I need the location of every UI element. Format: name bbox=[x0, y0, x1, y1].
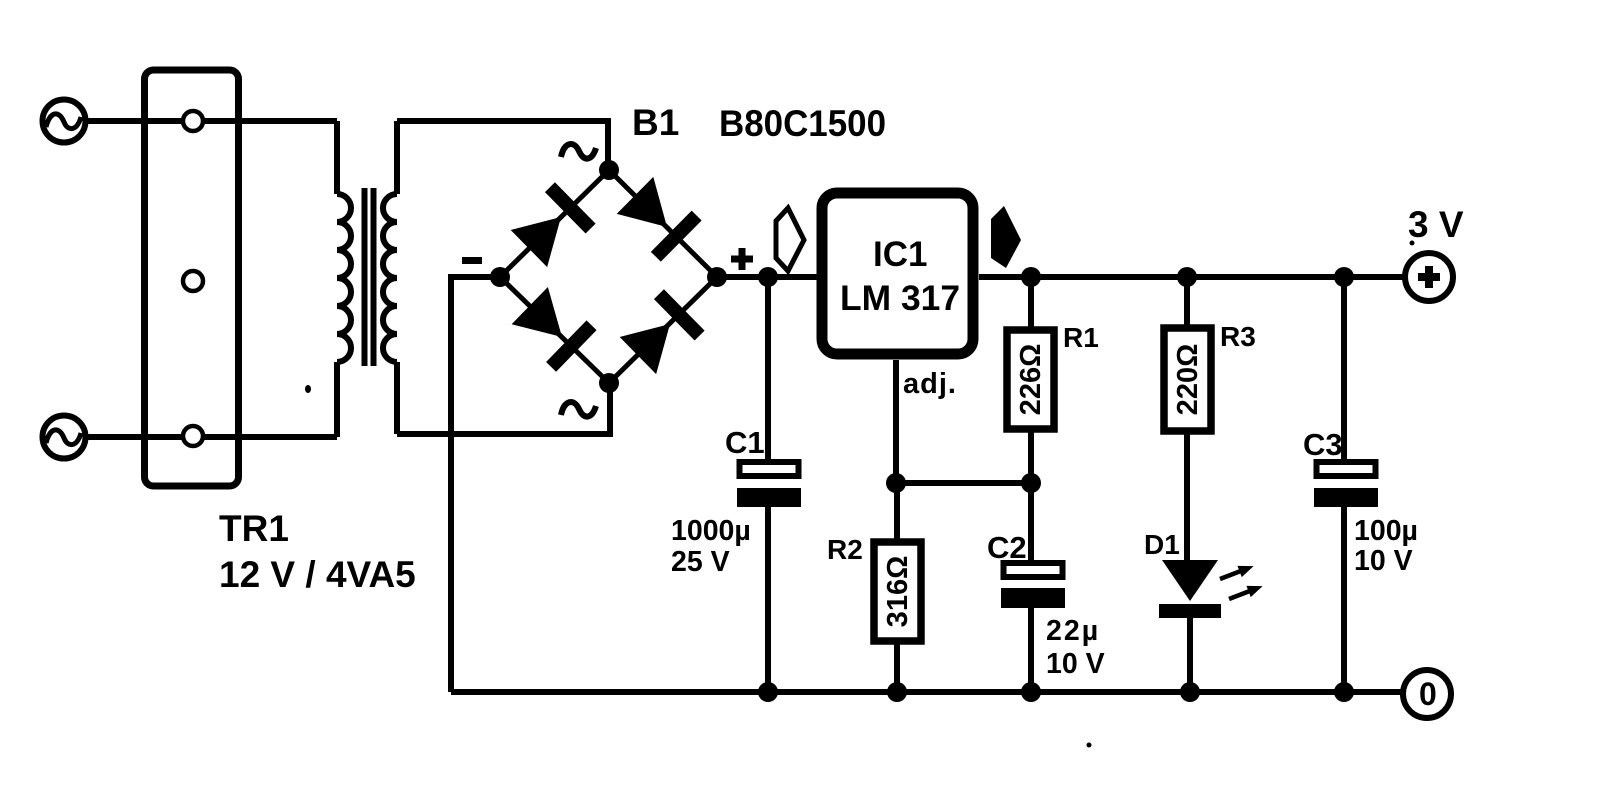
svg-text:C1: C1 bbox=[725, 425, 765, 460]
LED D1 bbox=[1159, 560, 1221, 692]
plug pin bottom bbox=[183, 426, 203, 446]
node output rail R1 junction bbox=[1021, 267, 1041, 287]
output block arrow bbox=[991, 206, 1021, 268]
svg-text:D1: D1 bbox=[1144, 529, 1180, 560]
plug pin top bbox=[183, 111, 203, 131]
output terminal zero bbox=[1403, 670, 1451, 718]
wire bottom AC to transformer primary bbox=[88, 434, 337, 440]
svg-text:B80C1500: B80C1500 bbox=[719, 103, 886, 144]
node D1 ground junction bbox=[1180, 682, 1200, 702]
node output rail C3 junction bbox=[1334, 267, 1354, 287]
wire IC1 adj pin bbox=[893, 360, 899, 483]
node bridge right bbox=[707, 267, 727, 287]
LED light arrow 2 bbox=[1227, 580, 1265, 604]
svg-text:LM 317: LM 317 bbox=[840, 279, 960, 318]
diode D lower-left (anode left node, cathode bottom node) bbox=[510, 285, 597, 372]
svg-text:1000µ: 1000µ bbox=[671, 515, 751, 547]
capacitor C2 bbox=[1001, 483, 1065, 692]
node C3 ground junction bbox=[1334, 682, 1354, 702]
svg-text:R3: R3 bbox=[1220, 321, 1256, 352]
diode D lower-right (anode bottom node, cathode right node) bbox=[618, 289, 705, 376]
wire adj to R1/C2 branch bbox=[896, 480, 1031, 486]
wire R1 top bbox=[1028, 277, 1034, 330]
node bridge left bbox=[490, 267, 510, 287]
resistor R2 316 ohm bbox=[874, 542, 921, 641]
diode D upper-left (anode left node, cathode top node) bbox=[509, 182, 596, 269]
wire R3 top bbox=[1184, 277, 1190, 328]
diode D upper-right (anode top node, cathode right node) bbox=[615, 175, 702, 262]
svg-text:IC1: IC1 bbox=[873, 235, 927, 274]
ink speck artifact bottom middle bbox=[1087, 743, 1092, 748]
node adj junction bbox=[886, 473, 906, 493]
svg-text:R2: R2 bbox=[827, 534, 863, 565]
wire secondary top to bridge bbox=[397, 121, 608, 172]
wire top AC to transformer primary bbox=[88, 118, 337, 124]
input block arrow bbox=[776, 208, 804, 271]
plus sign at bridge right output bbox=[731, 248, 753, 270]
wire IC1 output rail bbox=[979, 274, 1403, 280]
svg-text:25 V: 25 V bbox=[671, 546, 730, 578]
regulator IC1 box bbox=[822, 193, 973, 354]
svg-text:R1: R1 bbox=[1063, 322, 1099, 353]
capacitor C1 bbox=[737, 277, 801, 692]
wire R3 to D1 bbox=[1184, 431, 1190, 562]
ground rail bottom bbox=[451, 689, 1401, 695]
AC tilde bottom bbox=[561, 402, 596, 417]
resistor R3 220 ohm bbox=[1164, 328, 1211, 431]
transformer TR1 secondary winding bbox=[383, 121, 397, 434]
capacitor C3 bbox=[1314, 277, 1378, 692]
plug pin middle bbox=[183, 271, 203, 291]
svg-text:10 V: 10 V bbox=[1046, 648, 1105, 680]
node output rail R3 junction bbox=[1177, 267, 1197, 287]
resistor R1 226 ohm bbox=[1007, 330, 1054, 429]
svg-text:22µ: 22µ bbox=[1046, 615, 1100, 647]
AC source terminal bottom-left bbox=[43, 416, 86, 459]
svg-text:0: 0 bbox=[1419, 676, 1437, 712]
node R2 ground junction bbox=[887, 682, 907, 702]
svg-text:C3: C3 bbox=[1303, 427, 1343, 462]
minus sign at bridge left output bbox=[462, 257, 482, 264]
wire bridge plus output to IC1 bbox=[717, 274, 817, 280]
node C2 ground junction bbox=[1021, 682, 1041, 702]
bridge rectifier B1 arms bbox=[500, 170, 717, 383]
svg-text:12 V / 4VA5: 12 V / 4VA5 bbox=[219, 554, 416, 595]
node bridge top bbox=[599, 160, 619, 180]
node bridge bottom bbox=[599, 373, 619, 393]
svg-text:TR1: TR1 bbox=[219, 508, 289, 549]
node C1 ground junction bbox=[758, 682, 778, 702]
wire bridge minus output down to ground rail bbox=[451, 277, 500, 692]
transformer core bbox=[365, 188, 374, 366]
wire secondary bottom to bridge bbox=[397, 381, 610, 434]
mains plug block bbox=[145, 70, 239, 486]
ink speck artifact left bbox=[305, 385, 311, 393]
node C1 top junction bbox=[758, 267, 778, 287]
svg-text:B1: B1 bbox=[632, 102, 679, 143]
AC tilde top bbox=[561, 144, 596, 159]
wire R1 bottom bbox=[1028, 429, 1034, 483]
transformer TR1 primary winding bbox=[337, 121, 351, 437]
svg-text:3 V: 3 V bbox=[1408, 204, 1464, 245]
svg-text:100µ: 100µ bbox=[1354, 515, 1418, 547]
wire R2 bottom bbox=[894, 641, 900, 692]
ink speck artifact above plus terminal bbox=[1410, 241, 1415, 246]
svg-text:220Ω: 220Ω bbox=[1172, 344, 1204, 416]
svg-text:316Ω: 316Ω bbox=[882, 556, 914, 628]
svg-text:10 V: 10 V bbox=[1354, 545, 1413, 577]
wire R2 top bbox=[894, 483, 900, 542]
output terminal plus bbox=[1405, 253, 1453, 301]
LED light arrow 1 bbox=[1218, 560, 1256, 584]
svg-text:adj.: adj. bbox=[903, 368, 957, 400]
svg-text:226Ω: 226Ω bbox=[1015, 344, 1047, 416]
AC source terminal top-left bbox=[43, 100, 86, 143]
svg-text:C2: C2 bbox=[987, 530, 1027, 565]
node R1 bottom junction bbox=[1021, 473, 1041, 493]
